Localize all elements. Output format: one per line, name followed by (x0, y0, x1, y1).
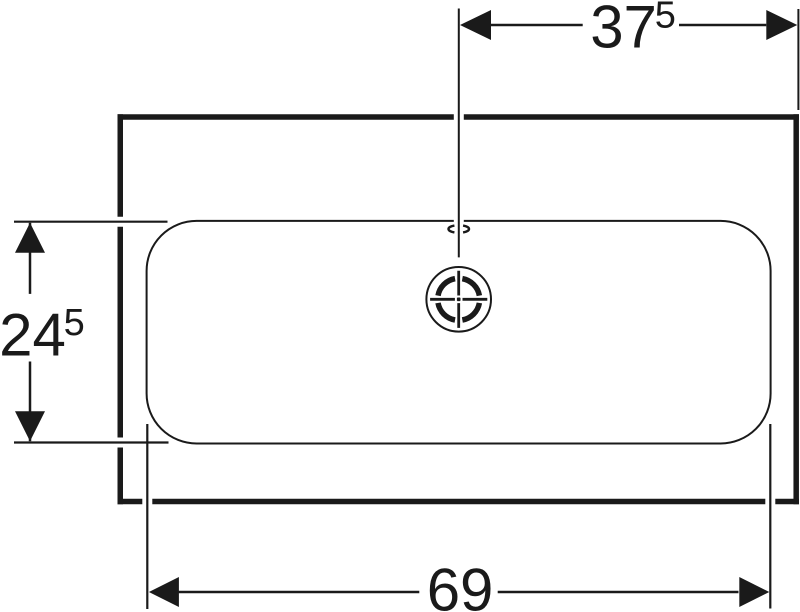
dimension 37.5: value label (590, 0, 676, 61)
dimension 69: right arrowhead (739, 577, 769, 607)
svg-text:69: 69 (427, 557, 494, 612)
centerline (vertical axis through tap hole) (458, 9, 460, 258)
dimension 24.5: extension lines (14, 222, 169, 443)
washbasin outer edge (ceramic outline, thick rectangle) (118, 114, 800, 504)
dimension 37.5: extension line right (797, 9, 799, 110)
dimension 24.5: down arrowhead (15, 411, 45, 441)
dimension 24.5: up arrowhead (15, 223, 45, 253)
drain outer circle (426, 267, 491, 332)
dimension 69: dimension line (179, 591, 739, 593)
drain crosshair centerlines (430, 271, 487, 328)
drain inner ring (four thick arcs) (438, 279, 479, 320)
svg-text:5: 5 (64, 302, 85, 344)
svg-text:5: 5 (655, 0, 676, 37)
dimension 37.5: dimension line (491, 24, 766, 27)
dimension 24.5: value label (0, 302, 85, 369)
dimension 69: left arrowhead (149, 577, 179, 607)
dimension 24.5: dimension line (29, 223, 32, 441)
svg-text:37: 37 (590, 0, 657, 61)
svg-text:24: 24 (0, 302, 66, 369)
dimension 37.5: right arrowhead (766, 10, 797, 40)
dimension 37.5: left arrowhead (460, 10, 491, 40)
tap hole ellipse (split by centerline) (448, 226, 469, 233)
dimension 69: extension lines (147, 424, 770, 609)
inner basin (rounded rectangle) (147, 221, 771, 444)
